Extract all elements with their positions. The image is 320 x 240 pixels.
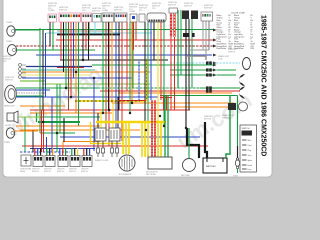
wire	[185, 19, 187, 128]
wire	[178, 10, 181, 88]
connector symbols (right)	[206, 29, 217, 93]
wire	[36, 113, 38, 122]
horn	[5, 111, 18, 127]
svg-text:Conn: Conn	[248, 145, 252, 147]
wire (starter cable)	[186, 56, 206, 60]
wire	[46, 137, 48, 152]
svg-text:TURN: TURN	[4, 142, 10, 144]
svg-text:SWITCH: SWITCH	[5, 79, 13, 81]
wire	[170, 62, 214, 64]
wire	[92, 64, 214, 66]
svg-text:SWITCH: SWITCH	[44, 171, 51, 173]
wire	[133, 22, 135, 50]
svg-text:SWITCH: SWITCH	[59, 9, 67, 11]
wire	[22, 74, 90, 76]
alternator	[119, 155, 135, 176]
wire	[38, 121, 80, 123]
wire	[153, 22, 155, 60]
wire	[75, 22, 77, 113]
wire	[88, 22, 90, 40]
connector row (bottom left)	[32, 148, 92, 173]
svg-text:SWITCH: SWITCH	[32, 171, 39, 173]
connector (ignition switch block)	[59, 7, 81, 22]
wire (green/white striped run)	[100, 87, 200, 89]
wire	[100, 90, 236, 92]
wire	[118, 92, 232, 94]
rear brake switch	[222, 102, 248, 120]
wire (yellow/black striped)	[75, 100, 140, 102]
flasher relay	[20, 155, 31, 173]
ignition switch symbol	[217, 49, 251, 70]
lamp (front turn signal L)	[4, 128, 15, 144]
headlight	[4, 77, 16, 108]
wire	[126, 22, 128, 91]
wire	[45, 33, 47, 97]
neutral switch	[181, 128, 196, 177]
wire	[170, 74, 214, 76]
wire (fuse feed)	[237, 96, 239, 147]
svg-text:Splice: Splice	[248, 160, 253, 162]
wire	[40, 116, 100, 118]
wire	[115, 22, 117, 137]
wire (battery green lead)	[226, 96, 230, 159]
regulator/rectifier	[146, 157, 172, 176]
connector (handlebar switch)	[102, 3, 114, 22]
svg-text:Term: Term	[248, 154, 252, 157]
wire	[157, 22, 159, 122]
wire	[20, 80, 46, 82]
svg-text:SWITCH: SWITCH	[81, 171, 88, 173]
wire	[160, 22, 162, 100]
watermark	[0, 56, 256, 154]
wire (red jog)	[118, 100, 146, 102]
wire	[60, 22, 62, 60]
wire	[163, 22, 165, 126]
wire	[22, 69, 95, 71]
svg-text:TURN: TURN	[6, 22, 12, 24]
wire	[16, 49, 95, 51]
wire	[39, 28, 41, 133]
wire	[68, 22, 70, 110]
wire	[144, 22, 146, 122]
svg-text:ALTERNATOR: ALTERNATOR	[119, 173, 132, 176]
lamp (front turn signal R)	[6, 22, 15, 36]
wire	[42, 30, 44, 110]
battery	[203, 158, 227, 173]
svg-text:SWITCH: SWITCH	[114, 9, 122, 11]
connector (CDI black plugs)	[182, 3, 198, 19]
connector blobs under CDI	[183, 33, 195, 37]
svg-text:1985-1987 CMX250C AND 1986 CMX: 1985-1987 CMX250C AND 1986 CMX250CD	[260, 15, 267, 156]
wire	[57, 67, 84, 69]
wire	[57, 34, 120, 36]
wire (yellow harness)	[90, 96, 168, 158]
wire	[20, 129, 140, 131]
svg-text:TURN: TURN	[6, 41, 12, 43]
wire	[41, 110, 43, 152]
wire (gray drops)	[190, 21, 209, 56]
wire	[59, 84, 61, 133]
wire	[170, 106, 232, 108]
wire	[105, 22, 107, 130]
wire	[135, 22, 137, 40]
wire	[188, 19, 190, 110]
wire	[14, 30, 50, 131]
wire	[57, 30, 112, 32]
wire (red/white striped)	[171, 13, 175, 110]
svg-text:Wire: Wire	[248, 139, 252, 142]
instrument cluster bulbs	[3, 56, 26, 78]
wire (battery lead)	[187, 122, 207, 158]
wire	[60, 59, 168, 61]
fuse	[233, 146, 240, 178]
svg-text:RELAY: RELAY	[20, 170, 26, 173]
svg-text:(CDI): (CDI)	[218, 59, 223, 61]
wire	[22, 77, 132, 79]
wire	[20, 151, 70, 153]
wire	[56, 39, 213, 41]
wire	[93, 78, 95, 151]
wire	[118, 22, 120, 110]
wire	[63, 22, 65, 72]
wire	[56, 84, 58, 152]
svg-text:Diode: Diode	[248, 165, 252, 167]
wire	[16, 96, 158, 98]
legend box	[240, 125, 257, 172]
svg-text:SWITCH: SWITCH	[222, 118, 230, 120]
svg-text:HORN: HORN	[5, 125, 11, 127]
wire	[132, 22, 134, 88]
svg-text:COMB: COMB	[102, 10, 109, 12]
wire	[108, 22, 110, 146]
svg-text:SPARK PLUGS: SPARK PLUGS	[95, 159, 109, 162]
wire	[26, 66, 92, 68]
wire	[73, 22, 75, 78]
wire	[150, 22, 152, 100]
connector (coil sub)	[168, 2, 178, 13]
wire	[30, 109, 190, 111]
wire	[131, 22, 133, 103]
wire	[63, 118, 65, 142]
wire	[70, 22, 72, 97]
svg-text:Fuse: Fuse	[248, 169, 252, 171]
svg-text:MOTOR: MOTOR	[204, 119, 212, 121]
wire	[108, 22, 110, 110]
wire	[20, 105, 65, 107]
wire	[121, 22, 123, 141]
svg-text:SWITCH: SWITCH	[92, 10, 100, 12]
svg-text:SWITCH: SWITCH	[57, 171, 64, 173]
wire	[62, 142, 64, 153]
note text	[218, 55, 230, 61]
wire	[63, 141, 100, 143]
connector (small)	[129, 4, 138, 22]
connector (right white)	[201, 5, 213, 21]
svg-text:COLOR CODE: COLOR CODE	[231, 13, 245, 15]
wire	[78, 22, 80, 126]
wire	[94, 22, 96, 33]
wire (yellow/black vertical)	[146, 60, 148, 101]
svg-text:COMB: COMB	[129, 11, 136, 13]
svg-text:Red/White: Red/White	[234, 47, 244, 50]
wire	[30, 112, 112, 114]
connector block	[82, 5, 92, 22]
wire	[85, 22, 87, 50]
wire	[147, 22, 149, 130]
wire	[43, 110, 45, 152]
svg-text:COMB: COMB	[48, 10, 55, 12]
ignition coil 2	[109, 128, 120, 141]
wire	[22, 71, 150, 73]
handlebar switch symbols	[217, 70, 246, 99]
wire	[16, 125, 100, 127]
connector (small2)	[139, 5, 148, 22]
wire	[22, 145, 208, 147]
wire	[51, 97, 53, 152]
wire	[65, 22, 67, 88]
wire	[129, 22, 131, 113]
wire	[40, 132, 75, 134]
svg-text:Plug: Plug	[248, 150, 251, 152]
svg-text:SWITCH: SWITCH	[242, 128, 250, 130]
wire	[160, 97, 172, 99]
connector	[114, 7, 127, 22]
wire	[36, 54, 212, 56]
svg-text:BATTERY: BATTERY	[206, 165, 216, 168]
svg-text:RW: RW	[229, 48, 232, 50]
svg-text:NEUTRAL: NEUTRAL	[181, 174, 190, 177]
svg-text:RW: RW	[251, 48, 254, 50]
wire	[60, 136, 200, 138]
page sheet	[3, 0, 272, 177]
svg-text:SWITCH: SWITCH	[228, 52, 236, 54]
wire	[30, 148, 95, 150]
svg-text:Red/White: Red/White	[217, 47, 227, 50]
wire (blue/white vertical)	[138, 60, 140, 100]
wire	[160, 95, 238, 97]
junction splices	[42, 59, 187, 138]
wire	[170, 69, 214, 71]
spark plugs	[95, 141, 119, 162]
wire	[97, 113, 99, 128]
wire	[49, 22, 51, 46]
wire	[16, 45, 213, 47]
svg-text:HEADLIGHT: HEADLIGHT	[4, 105, 16, 108]
svg-text:SWITCH: SWITCH	[184, 5, 192, 7]
svg-text:SWITCH: SWITCH	[168, 4, 176, 6]
wire	[88, 22, 90, 60]
connector (combination rounded box)	[147, 3, 166, 22]
connector (clutch switch)	[48, 3, 57, 22]
wire	[16, 87, 236, 89]
wire	[191, 19, 193, 88]
wire	[32, 130, 34, 152]
wire	[52, 22, 54, 50]
wire	[111, 22, 113, 103]
svg-text:RECTIFIER: RECTIFIER	[146, 174, 157, 176]
wire	[112, 102, 234, 104]
legend text	[217, 13, 256, 51]
wire	[117, 97, 119, 128]
wire	[166, 95, 168, 110]
wire	[112, 103, 114, 128]
note text2	[204, 115, 213, 121]
wire	[46, 32, 152, 34]
lamp (headlight pilot)	[6, 41, 17, 55]
wire	[24, 117, 26, 152]
svg-text:FUSE: FUSE	[233, 176, 239, 178]
wire	[102, 22, 104, 113]
wire	[75, 100, 147, 102]
wire	[82, 22, 84, 60]
ignition coil 1	[95, 128, 106, 141]
connector	[92, 8, 101, 22]
wire	[15, 29, 214, 31]
svg-text:SWITCH: SWITCH	[204, 7, 212, 9]
svg-text:SWITCH: SWITCH	[69, 171, 76, 173]
wire	[100, 110, 102, 128]
wire	[163, 95, 165, 110]
wire	[42, 83, 150, 85]
